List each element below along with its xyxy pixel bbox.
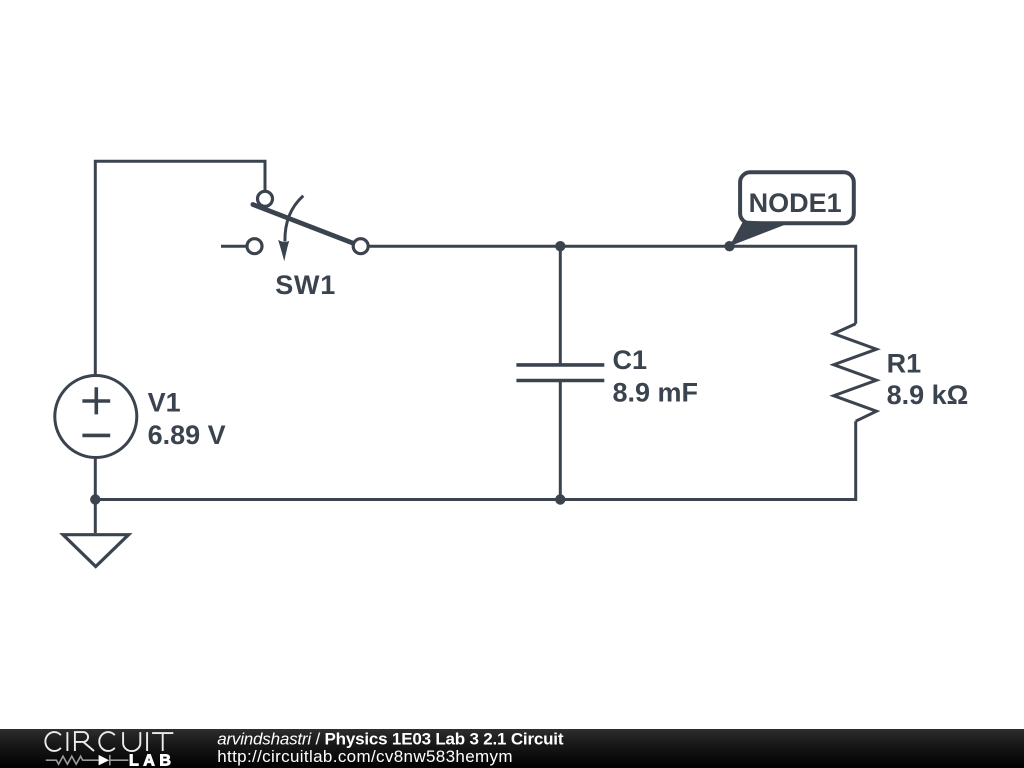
voltage source V1 minus sign (82, 434, 110, 438)
svg-text:8.9 mF: 8.9 mF (613, 378, 699, 408)
svg-text:arvindshastri / Physics 1E03 L: arvindshastri / Physics 1E03 Lab 3 2.1 C… (217, 730, 564, 749)
wire right rail lower and bottom rail (95, 421, 855, 499)
switch SW1 left terminal (247, 239, 262, 254)
svg-text:LAB: LAB (129, 752, 175, 768)
node label NODE1 callout box (740, 172, 854, 223)
CircuitLab logo squiggle resistor-diode line (46, 755, 129, 766)
switch SW1 right terminal (353, 239, 368, 254)
switch SW1 blade (253, 205, 353, 244)
junction dot capacitor top (555, 241, 565, 251)
svg-text:V1: V1 (148, 387, 181, 417)
wire top rail from switch to right rail upper (368, 246, 856, 324)
junction dot ground node (90, 494, 100, 504)
wire top-left horizontal (95, 161, 265, 376)
svg-text:http://circuitlab.com/cv8nw583: http://circuitlab.com/cv8nw583hemym (217, 747, 513, 766)
svg-text:R1: R1 (887, 348, 922, 378)
svg-text:6.89 V: 6.89 V (148, 420, 226, 450)
junction dot capacitor bottom (555, 494, 565, 504)
footer bar (0, 729, 1024, 768)
voltage source V1 circle (55, 376, 137, 458)
resistor R1 zigzag (834, 324, 877, 422)
capacitor C1 top plate (516, 363, 604, 367)
node label NODE1 callout tail (730, 221, 790, 247)
switch SW1 top terminal (258, 191, 273, 206)
ground triangle (63, 535, 129, 567)
svg-text:C1: C1 (613, 345, 648, 375)
switch SW1 arrowhead (278, 240, 289, 261)
CircuitLab logo diode triangle (99, 755, 110, 766)
voltage source V1 plus sign (82, 387, 110, 414)
ground stem wire (94, 500, 97, 534)
svg-text:8.9 kΩ: 8.9 kΩ (887, 380, 969, 410)
svg-text:SW1: SW1 (275, 270, 336, 300)
switch SW1 left stub wire (221, 245, 247, 248)
capacitor C1 bottom lead wire (559, 381, 562, 500)
wire V1 bottom lead (94, 457, 97, 500)
capacitor C1 top lead wire (559, 246, 562, 365)
switch SW1 actuation arc arrow (285, 196, 303, 242)
CircuitLab logo word CIRCUIT (45, 732, 173, 751)
junction dot NODE1 (724, 241, 734, 251)
svg-text:NODE1: NODE1 (749, 188, 842, 218)
capacitor C1 bottom plate (516, 379, 604, 383)
